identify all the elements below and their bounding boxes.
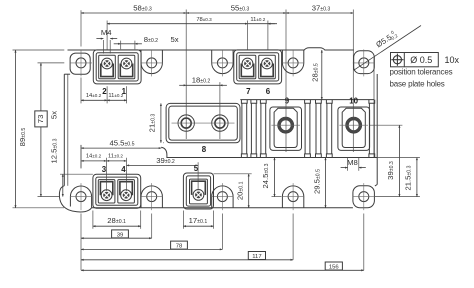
dimension 21±0.3 xyxy=(160,103,162,142)
dimension 14±0.2 11±0.2 top xyxy=(81,99,107,101)
dimension 89±0.5 xyxy=(15,50,17,208)
svg-text:9: 9 xyxy=(285,97,290,106)
dimension 17±0.1 xyxy=(183,225,213,227)
dimension 18±0.2 xyxy=(186,84,220,86)
bottom-left mounting ear xyxy=(59,186,91,212)
top boss 3 xyxy=(212,50,233,74)
svg-text:5x: 5x xyxy=(50,111,59,119)
svg-text:8: 8 xyxy=(202,145,207,154)
dimension 20±0.1 xyxy=(248,174,250,208)
extension lines bottom chain xyxy=(80,214,82,271)
dimension 12.5±0.3 5x xyxy=(62,174,64,196)
bottom boss 2 xyxy=(141,186,162,208)
dimension 78 boxed xyxy=(81,248,222,250)
dimension 28±0.1 xyxy=(93,225,141,227)
svg-text:base plate holes: base plate holes xyxy=(390,79,445,88)
top-right corner boss xyxy=(354,51,375,74)
bottom boss 3 xyxy=(212,186,233,208)
dimension 55±0.3 xyxy=(186,12,286,14)
dimension 156 boxed xyxy=(81,269,364,271)
svg-text:10x: 10x xyxy=(445,55,460,65)
terminal block 3-4 xyxy=(93,174,141,208)
svg-text:10: 10 xyxy=(349,97,358,106)
terminal block 8 xyxy=(166,103,240,142)
dimension 117 boxed xyxy=(81,259,293,261)
dimension 45.5±0.5 xyxy=(81,147,161,149)
case ridges between 8 and 9 xyxy=(241,103,243,154)
svg-text:117: 117 xyxy=(252,254,261,260)
svg-text:3: 3 xyxy=(102,165,107,174)
base plate hole A3 xyxy=(217,58,227,68)
base plate hole A1 xyxy=(76,58,86,68)
top-left corner boss xyxy=(70,53,90,74)
dimension 8±0.2 5x xyxy=(121,43,135,45)
svg-text:78: 78 xyxy=(176,244,183,250)
svg-text:39: 39 xyxy=(117,232,124,238)
svg-text:156: 156 xyxy=(329,264,340,270)
top boss 2 xyxy=(141,50,162,74)
position tolerance frame xyxy=(391,53,439,67)
module body outline xyxy=(68,48,354,50)
svg-text:Ø 0.5: Ø 0.5 xyxy=(410,55,432,65)
svg-text:2: 2 xyxy=(102,87,107,96)
svg-text:M8: M8 xyxy=(347,158,358,167)
dimension 21.5±0.3 xyxy=(416,158,418,197)
inner case step line top xyxy=(240,99,374,101)
dimension 73 left xyxy=(40,63,42,197)
case ridges between 9 and 10 xyxy=(304,103,306,154)
terminal block 10 xyxy=(338,107,370,150)
dimension 78±0.3 screw 2 to screw 7 xyxy=(107,23,248,25)
base plate hole B4 xyxy=(288,192,298,202)
base plate hole A4 xyxy=(288,58,298,68)
terminal block 9 xyxy=(270,107,302,150)
inner case step line bottom xyxy=(161,147,377,157)
dimension 24.5±0.3 xyxy=(274,158,276,197)
svg-text:73: 73 xyxy=(36,115,45,124)
svg-text:5x: 5x xyxy=(170,35,178,44)
dimension 37±0.3 xyxy=(286,12,353,14)
base plate hole A2 xyxy=(147,58,157,68)
base plate hole A5 xyxy=(359,58,369,68)
dimension 29.5±0.5 xyxy=(325,158,327,208)
dimension 58±0.3 xyxy=(81,12,186,14)
terminal block 7-6 xyxy=(234,50,282,84)
top boss 4 xyxy=(282,50,303,74)
terminal block 2-1 xyxy=(93,50,141,84)
dimension 39±0.3 right xyxy=(398,125,400,196)
case ridge right of 10 xyxy=(368,103,370,154)
base plate hole B5 xyxy=(359,192,369,202)
base plate hole B1 xyxy=(76,192,86,202)
terminal block 5 xyxy=(183,173,213,209)
bottom boss 4 xyxy=(282,186,303,208)
dimension 39±0.2 xyxy=(127,164,199,166)
base plate hole B3 xyxy=(217,192,227,202)
svg-text:M4: M4 xyxy=(101,28,112,37)
svg-text:7: 7 xyxy=(246,87,251,96)
svg-text:6: 6 xyxy=(266,87,271,96)
dimension 28±0.5 xyxy=(321,50,323,100)
dimension 14±0.2 11±0.2 bottom xyxy=(81,160,107,162)
base plate hole B2 xyxy=(147,192,157,202)
dimension 39 boxed xyxy=(81,237,152,239)
hole callout Ø5.5 xyxy=(354,26,421,71)
svg-text:4: 4 xyxy=(121,165,126,174)
dimension 11±0.2 terminals 7-6 xyxy=(248,23,277,25)
bottom-right corner boss xyxy=(353,186,375,208)
svg-text:position tolerances: position tolerances xyxy=(390,67,453,76)
